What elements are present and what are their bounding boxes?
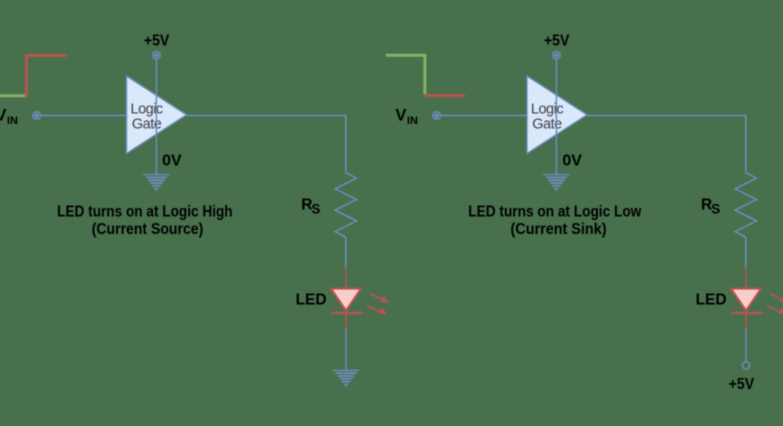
caption (left) (57, 204, 233, 238)
svg-text:V: V (395, 106, 406, 124)
wire input (left) (40, 115, 126, 117)
svg-text:Gate: Gate (132, 117, 162, 133)
terminal (left input) (33, 112, 41, 120)
svg-text:Logic: Logic (131, 101, 163, 117)
LED light arrow 2 (left) (367, 306, 388, 315)
LED D1 triangle (left) (331, 289, 361, 311)
svg-text:V: V (0, 106, 6, 124)
LED light arrow 2 (right) (767, 306, 783, 315)
input waveform low level (left, green) (0, 94, 27, 97)
svg-text:Gate: Gate (532, 117, 562, 133)
label RS (left) (301, 196, 320, 216)
svg-text:IN: IN (7, 115, 18, 127)
op-amp U1 logic gate (left) (127, 76, 187, 154)
svg-text:(Current Sink): (Current Sink) (511, 221, 607, 238)
svg-text:LED: LED (696, 291, 727, 308)
terminal +5V (left top) (153, 51, 161, 59)
terminal +5V (right bottom) (742, 362, 749, 369)
svg-text:(Current Source): (Current Source) (92, 221, 204, 238)
svg-text:LED turns on at Logic Low: LED turns on at Logic Low (468, 204, 642, 221)
ground (left bottom) (333, 370, 359, 386)
terminal +5V (right top) (553, 51, 561, 59)
wire +5V to gate to ground (right vertical) (555, 59, 557, 175)
op-amp U2 logic gate (right) (527, 76, 587, 154)
resistor RS (left) (335, 173, 356, 237)
caption (right) (468, 204, 642, 238)
svg-text:S: S (311, 201, 320, 216)
LED cathode lead (right, red) (745, 314, 747, 328)
terminal (right input) (433, 112, 441, 120)
wire gate output to resistor (left) (187, 116, 346, 173)
wire input (right) (440, 115, 527, 117)
label RS (right) (701, 196, 720, 216)
LED anode lead (left, red) (345, 268, 347, 288)
svg-text:0V: 0V (562, 152, 582, 169)
svg-text:+5V: +5V (729, 376, 755, 393)
LED D2 triangle (right) (731, 289, 761, 311)
LED cathode bar (right) (731, 312, 763, 314)
svg-text:IN: IN (407, 115, 418, 127)
ground (right gate) (543, 175, 569, 191)
ground (left gate) (143, 175, 169, 191)
LED anode lead (right, red) (745, 268, 747, 288)
LED light arrow 1 (left) (370, 294, 389, 304)
svg-text:Logic: Logic (531, 101, 563, 117)
input waveform rising edge to high (left, red) (26, 55, 67, 97)
input waveform high level falling (right, green) (386, 55, 425, 94)
input waveform low level (right, red) (425, 94, 465, 97)
LED cathode lead (left, red) (345, 314, 347, 328)
svg-text:0V: 0V (162, 152, 182, 169)
LED cathode bar (left) (331, 312, 363, 314)
node VIN (left) (0, 106, 18, 127)
wire resistor to LED (right) (745, 237, 747, 268)
svg-text:S: S (711, 201, 720, 216)
LED light arrow 1 (right) (770, 294, 783, 304)
resistor RS (right) (735, 173, 756, 237)
svg-text:+5V: +5V (544, 32, 570, 49)
svg-text:LED: LED (296, 291, 327, 308)
svg-text:+5V: +5V (144, 32, 170, 49)
wire LED to +5V terminal (right) (745, 329, 747, 362)
wire gate output to resistor (right) (587, 116, 746, 173)
wire +5V to gate to ground (left vertical) (155, 59, 157, 175)
node VIN (right) (395, 106, 418, 127)
svg-text:LED turns on at Logic High: LED turns on at Logic High (57, 204, 233, 221)
wire resistor to LED (left) (345, 237, 347, 268)
wire LED to ground (left) (345, 329, 347, 370)
